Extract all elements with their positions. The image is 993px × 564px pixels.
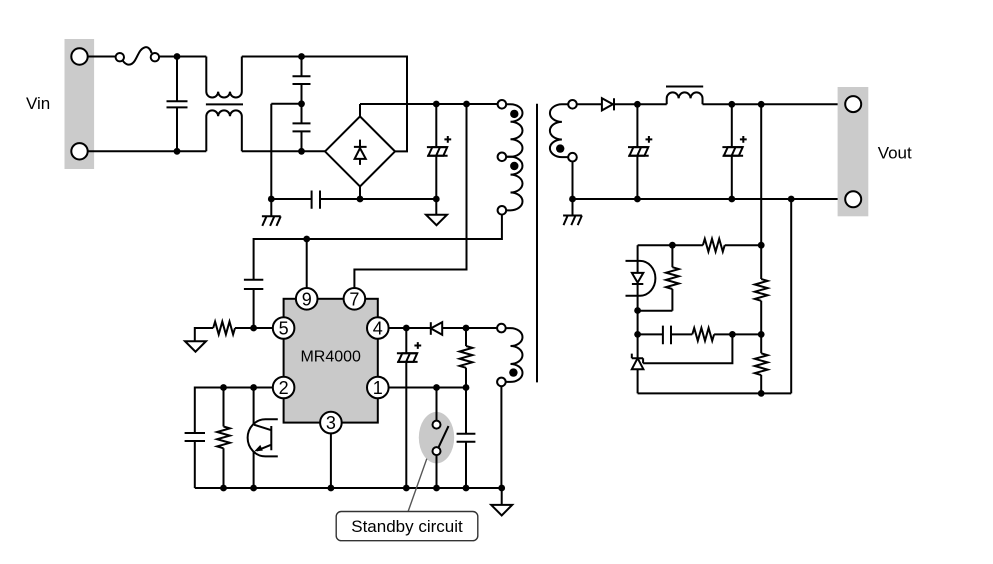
svg-text:Vout: Vout <box>878 143 912 162</box>
svg-text:1: 1 <box>373 378 383 398</box>
svg-text:7: 7 <box>349 289 359 309</box>
svg-text:Vin: Vin <box>26 94 50 113</box>
svg-text:4: 4 <box>373 319 383 339</box>
svg-text:9: 9 <box>302 289 312 309</box>
svg-text:Standby circuit: Standby circuit <box>351 517 463 536</box>
svg-text:3: 3 <box>326 413 336 433</box>
svg-text:MR4000: MR4000 <box>300 349 361 366</box>
svg-text:2: 2 <box>279 378 289 398</box>
svg-text:5: 5 <box>279 319 289 339</box>
